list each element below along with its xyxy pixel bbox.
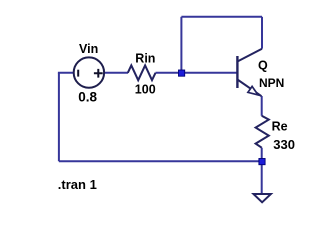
svg-text:330: 330 [273, 137, 295, 152]
wire: left lead into source [58, 72, 74, 74]
svg-text:0.8: 0.8 [78, 90, 97, 105]
voltage source V1 circle [74, 57, 104, 87]
transistor Q emitter diagonal [237, 80, 261, 97]
svg-text:Q: Q [258, 58, 268, 72]
plus sign inside source [94, 69, 103, 78]
resistor Re zigzag [256, 116, 269, 148]
resistor Rin zigzag [128, 65, 156, 80]
svg-text:Rin: Rin [135, 52, 155, 66]
transistor Q base bar [236, 56, 238, 88]
transistor Q collector diagonal [237, 49, 262, 62]
node junction at base [179, 70, 185, 76]
wire: left vertical from source down to bottom rail [58, 73, 60, 161]
wire: mid junction up to top rail [180, 17, 182, 73]
wire: source to Rin [104, 72, 128, 74]
ground symbol [254, 194, 271, 202]
svg-text:.tran 1: .tran 1 [58, 177, 97, 192]
svg-text:Re: Re [272, 120, 288, 134]
node junction at emitter resistor bottom [259, 159, 265, 165]
wire: emitter vertical down to Re [261, 96, 263, 116]
minus sign (rotated) inside source [77, 70, 79, 77]
wire: top rail [181, 16, 262, 18]
wire: Rin to transistor base [156, 72, 238, 74]
svg-text:NPN: NPN [259, 76, 284, 90]
wire: top right vertical down to collector [261, 17, 263, 49]
svg-text:Vin: Vin [79, 42, 98, 56]
wire: bottom rail from left to right junction [59, 160, 262, 162]
transistor Q emitter arrow [248, 86, 258, 95]
wire: Re to bottom junction and ground [261, 148, 263, 194]
svg-text:100: 100 [135, 82, 156, 96]
